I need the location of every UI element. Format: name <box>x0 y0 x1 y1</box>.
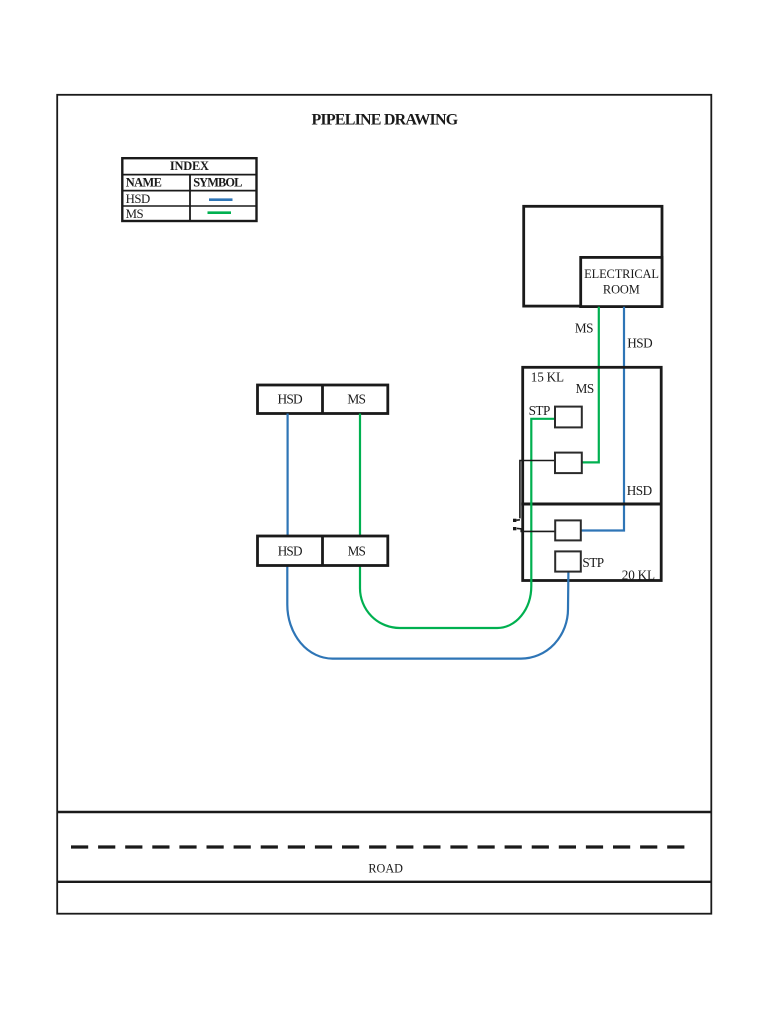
tank divider line <box>521 503 661 506</box>
dispenser box upper (HSD | MS) <box>258 385 388 414</box>
drawing border frame <box>57 95 711 914</box>
svg-text:NAME: NAME <box>126 175 162 189</box>
svg-text:MS: MS <box>348 543 366 558</box>
svg-text:MS: MS <box>126 207 144 221</box>
MS pipe from electrical room to pump box 2 (green) <box>582 307 599 463</box>
index table frame <box>122 158 256 221</box>
green pipe from STP box1 down around U-bend to lower HSD/MS box MS cell <box>360 419 555 628</box>
svg-text:MS: MS <box>347 392 365 407</box>
pump box 4 (STP, 20 KL) <box>555 551 581 571</box>
svg-text:HSD: HSD <box>278 392 304 407</box>
building block top-right <box>524 206 662 306</box>
svg-text:ELECTRICAL: ELECTRICAL <box>584 267 659 281</box>
HSD pipe from electrical room to pump box 3 (blue) <box>581 307 624 531</box>
svg-text:20 KL: 20 KL <box>622 567 655 582</box>
svg-text:HSD: HSD <box>278 543 302 558</box>
electrical room box <box>581 257 662 306</box>
index MS symbol green line <box>208 211 232 214</box>
road centre dashed line <box>71 845 687 848</box>
pump box 3 (20 KL) <box>555 520 581 540</box>
svg-text:HSD: HSD <box>627 483 652 498</box>
blue pipe from STP box4 down around U-bend to lower HSD/MS box HSD cell <box>287 566 568 659</box>
svg-text:SYMBOL: SYMBOL <box>193 175 242 189</box>
svg-text:MS: MS <box>576 381 594 396</box>
svg-text:HSD: HSD <box>126 192 150 206</box>
svg-text:HSD: HSD <box>627 335 652 350</box>
blue pipe between dispenser boxes <box>287 414 289 537</box>
svg-text:STP: STP <box>529 403 550 418</box>
svg-text:STP: STP <box>582 555 603 570</box>
break terminal dot upper <box>513 519 516 522</box>
svg-text:MS: MS <box>575 321 593 336</box>
break terminal dot lower <box>513 527 516 530</box>
green pipe between dispenser boxes <box>359 414 361 537</box>
pump box 2 (15 KL) <box>555 453 582 474</box>
tank block 15 KL / 20 KL <box>523 367 662 580</box>
road lower edge line <box>57 881 711 883</box>
svg-text:15 KL: 15 KL <box>531 369 564 384</box>
pump box 1 (STP, 15 KL) <box>555 407 582 428</box>
dispenser box lower (HSD | MS) <box>258 536 388 566</box>
svg-text:ROAD: ROAD <box>368 862 403 876</box>
black process line from box2 to box3 with break dots <box>516 461 555 532</box>
index HSD symbol blue line <box>209 198 233 201</box>
svg-text:INDEX: INDEX <box>170 159 209 173</box>
svg-text:PIPELINE DRAWING: PIPELINE DRAWING <box>311 112 458 129</box>
svg-text:ROOM: ROOM <box>603 283 640 297</box>
road upper edge line <box>57 811 711 813</box>
